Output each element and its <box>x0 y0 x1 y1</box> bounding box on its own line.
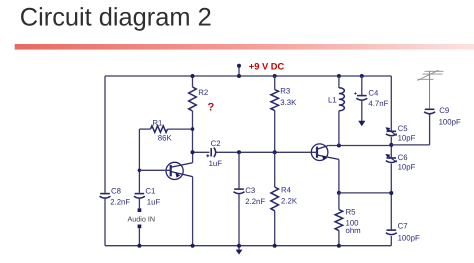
svg-text:?: ? <box>208 102 215 114</box>
svg-text:2.2nF: 2.2nF <box>245 197 265 206</box>
svg-text:R3: R3 <box>280 87 290 96</box>
svg-text:L1: L1 <box>328 96 337 105</box>
svg-text:10pF: 10pF <box>398 133 416 142</box>
svg-text:C9: C9 <box>439 106 449 115</box>
svg-text:R1: R1 <box>152 119 162 128</box>
svg-text:C2: C2 <box>211 139 221 148</box>
svg-text:4.7nF: 4.7nF <box>368 99 388 108</box>
svg-text:C1: C1 <box>145 187 155 196</box>
svg-text:R2: R2 <box>198 88 208 97</box>
svg-text:10pF: 10pF <box>398 162 416 171</box>
svg-text:C3: C3 <box>245 186 255 195</box>
svg-text:R4: R4 <box>281 186 292 195</box>
svg-text:2.2K: 2.2K <box>281 197 298 206</box>
svg-text:86K: 86K <box>158 134 173 143</box>
svg-text:1uF: 1uF <box>209 159 223 168</box>
svg-text:3.3K: 3.3K <box>280 98 297 107</box>
svg-text:1uF: 1uF <box>147 198 161 207</box>
svg-text:ohm: ohm <box>346 226 361 235</box>
svg-text:100pF: 100pF <box>398 233 420 242</box>
svg-text:Circuit diagram 2: Circuit diagram 2 <box>20 3 212 31</box>
svg-text:2.2nF: 2.2nF <box>110 198 130 207</box>
svg-text:C7: C7 <box>398 221 408 230</box>
svg-text:100pF: 100pF <box>439 118 461 127</box>
svg-text:C6: C6 <box>398 153 408 162</box>
svg-text:C8: C8 <box>111 187 121 196</box>
svg-text:C4: C4 <box>368 89 379 98</box>
svg-text:R5: R5 <box>346 208 357 217</box>
svg-text:C5: C5 <box>398 124 409 133</box>
svg-text:Audio IN: Audio IN <box>128 214 156 223</box>
svg-text:+9 V DC: +9 V DC <box>249 62 285 72</box>
